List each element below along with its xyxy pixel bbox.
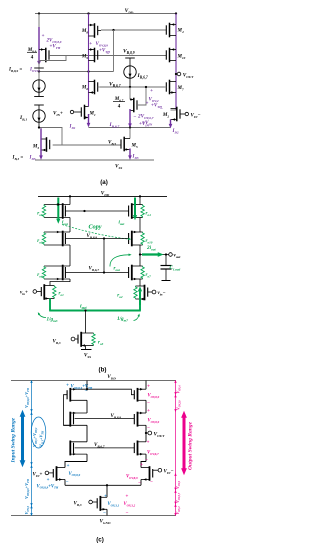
svg-text:IOVL2: IOVL2 [29, 68, 41, 73]
svg-text:ro1: ro1 [59, 292, 65, 297]
node M67 gate junction [145, 86, 147, 88]
node IB67-VB67 junction [129, 86, 131, 88]
transistor left with ro9 [44, 231, 70, 233]
transistor row3 left c [69, 441, 71, 456]
wire VB89 gate net b [65, 238, 128, 240]
wire M6 gate stub [98, 86, 100, 88]
node diode junction [112, 29, 114, 31]
current arrow into VSS purple [40, 129, 42, 158]
svg-text:M6: M6 [81, 86, 88, 91]
svg-text:VGND: VGND [100, 519, 111, 525]
wire VB67 net c [75, 447, 135, 449]
wire M7 gate stub [165, 86, 167, 88]
wire left branch bus purple [88, 14, 90, 107]
transistor M5 tail [124, 138, 130, 140]
current arrow ID1 purple [88, 114, 90, 125]
node IB1-M3 junction [38, 126, 40, 128]
svg-text:+: + [89, 42, 92, 47]
wire M89 diode connection [39, 56, 66, 61]
svg-text:ro9: ro9 [37, 239, 43, 244]
current arrow ID2 purple [170, 120, 172, 127]
svg-text:ro10: ro10 [146, 239, 153, 244]
transistor right with ro10 [132, 231, 140, 233]
current arrow IOVL2 purple [38, 27, 40, 63]
wire vout b [140, 254, 169, 256]
wire M3 diode connection [39, 128, 62, 146]
wire VSS rail [35, 159, 154, 161]
svg-text:VOV,8,9: VOV,8,9 [126, 475, 138, 480]
terminal bar IB67 top [125, 57, 135, 59]
node bias junction lower [103, 271, 105, 273]
node vout junction b [139, 253, 141, 255]
svg-text:VOV,8,9+VTH: VOV,8,9+VTH [24, 387, 30, 408]
node row1 gate junction [83, 210, 85, 212]
transistor M4 [170, 24, 177, 26]
svg-text:+VTH: +VTH [50, 45, 61, 50]
wire tail drain [129, 128, 131, 139]
svg-text:M9: M9 [81, 55, 88, 60]
svg-text:Output Swing Range: Output Swing Range [188, 421, 194, 470]
node VOUT junction [175, 73, 177, 75]
transistor row3 right c [137, 441, 139, 456]
node bias junction upper [103, 237, 105, 239]
svg-text:CLoad: CLoad [170, 265, 181, 271]
svg-text:2iout: 2iout [146, 245, 157, 251]
svg-text:M3: M3 [32, 145, 39, 150]
svg-text:VOV,8,9: VOV,8,9 [148, 419, 160, 424]
transistor row2 left c [69, 412, 71, 427]
node tail junction [129, 126, 131, 128]
svg-text:VOV,2: VOV,2 [175, 506, 181, 515]
svg-text:VOV,8,9+VTH: VOV,8,9+VTH [37, 484, 59, 489]
svg-text:+: + [147, 385, 150, 390]
svg-text:ro2: ro2 [117, 294, 123, 299]
svg-text:2VOV,8,9: 2VOV,8,9 [46, 39, 62, 44]
svg-text:vin+: vin+ [20, 291, 28, 296]
svg-text:IB,8,9 =: IB,8,9 = [8, 68, 22, 73]
node VDD-M4 junction [175, 12, 177, 14]
svg-text:VOV,3,2: VOV,3,2 [124, 502, 136, 507]
svg-text:−: − [103, 511, 106, 516]
svg-text:ro8: ro8 [37, 212, 43, 217]
svg-text:vin−: vin− [158, 291, 166, 296]
svg-text:+: + [125, 494, 128, 499]
current arrow iout right green [134, 198, 136, 216]
wire VB67 gate net b [65, 272, 128, 274]
transistor input right c [152, 469, 154, 478]
node cap junction b [165, 253, 167, 255]
svg-text:VB,6,7: VB,6,7 [94, 443, 105, 448]
transistor row1 left c [69, 388, 71, 402]
svg-text:IB,1: IB,1 [19, 115, 27, 122]
terminal vout circle b [169, 253, 173, 257]
wire VDD rail b [38, 195, 167, 197]
svg-text:VOV,8,9: VOV,8,9 [148, 394, 160, 399]
transistor right with ro4 [132, 204, 140, 206]
terminal VOUT c [146, 432, 148, 434]
svg-text:VIN+: VIN+ [33, 473, 43, 478]
wire M89 gate stub [49, 55, 52, 57]
node IB89 top junction [38, 70, 40, 72]
svg-text:−: − [147, 427, 150, 432]
svg-text:M7: M7 [177, 86, 184, 91]
transistor right with ro7 [132, 265, 140, 267]
svg-text:−: − [134, 114, 137, 120]
transistor input right ro2 [147, 288, 149, 297]
capacitor CLoad [165, 255, 167, 266]
wire left bus c [86, 381, 88, 390]
transistor M1 input [85, 106, 89, 108]
wire M2 drain jog [171, 109, 177, 111]
svg-text:M5: M5 [131, 144, 138, 149]
node VOUT junction c [145, 432, 147, 434]
transistor left with ro8 [44, 204, 70, 206]
svg-text:iout: iout [80, 304, 87, 311]
wire left bus segments b [69, 196, 71, 204]
current source IB1 [38, 105, 40, 110]
wire bias net to M9 drain and IB89 [39, 71, 114, 73]
node VDD-M8 junction [87, 12, 89, 14]
svg-text:VOV,8,9+VTH: VOV,8,9+VTH [24, 478, 30, 499]
svg-text:VOV,2: VOV,2 [149, 98, 159, 103]
wire M67 gate to VB67 net [137, 87, 146, 105]
wire gate bias vertical b [103, 239, 105, 273]
current arrow 2iout up green [139, 291, 141, 305]
wire right branch bus purple [175, 14, 177, 111]
wire M67 drain up [129, 87, 131, 100]
svg-text:(a): (a) [100, 179, 108, 186]
node iout tap left [57, 203, 59, 205]
svg-text:4: 4 [31, 55, 34, 60]
node VDD-M89 junction [38, 12, 40, 14]
wire VDD rail c [11, 380, 176, 382]
terminal VIN- circle [185, 112, 188, 115]
current arrow iout left green [57, 198, 59, 219]
wire tail source b [85, 346, 87, 350]
transistor left with ro6 [44, 265, 70, 267]
wire right bus segments b [139, 196, 141, 204]
wire M89 source to IB89 [38, 61, 40, 80]
svg-text:VB,6,7: VB,6,7 [89, 267, 100, 272]
svg-text:VB,3+VTH: VB,3+VTH [39, 430, 45, 447]
wire M3 drain [40, 128, 42, 140]
svg-text:M8: M8 [81, 29, 88, 34]
terminal VIN+ circle [70, 110, 73, 113]
svg-text:VB,5: VB,5 [108, 141, 116, 146]
svg-text:IB,6,7: IB,6,7 [137, 73, 148, 80]
wire tail connections c [106, 485, 108, 497]
wire VDD rail [35, 13, 176, 15]
node M9 drain junction [87, 70, 89, 72]
wire VOUT stub [176, 73, 177, 75]
wire VB89 net c [75, 417, 135, 419]
svg-text:−: − [147, 402, 150, 407]
node row1 drain junction c [86, 388, 88, 390]
wire right input bus b [139, 279, 141, 286]
svg-text:ro6: ro6 [37, 273, 43, 278]
svg-text:VOV,5,7: VOV,5,7 [175, 492, 181, 503]
ellipse annotation blue [31, 417, 46, 448]
transistor M8 [89, 24, 95, 26]
node tail junction b [84, 309, 86, 311]
wire source-coupled green path [49, 299, 51, 311]
svg-text:+: + [67, 464, 70, 469]
wire input left jog c [65, 462, 87, 468]
svg-text:ro4: ro4 [146, 212, 152, 217]
svg-text:VIN−: VIN− [164, 470, 174, 475]
svg-text:VOUT: VOUT [154, 432, 166, 439]
current arrow 2iout green [142, 253, 158, 255]
node rail-left bus [69, 195, 71, 197]
node tail junction c [106, 484, 108, 486]
svg-text:M2: M2 [162, 113, 169, 118]
svg-text:ID5: ID5 [132, 155, 139, 160]
svg-text:ro3: ro3 [98, 341, 104, 346]
svg-text:VOV,8,9: VOV,8,9 [69, 472, 81, 477]
svg-text:−: − [85, 390, 88, 395]
wire VB5 gate net [53, 144, 121, 146]
transistor M7 cascode [170, 81, 177, 83]
svg-text:IB,3 =: IB,3 = [12, 156, 24, 161]
svg-text:+: + [42, 34, 45, 39]
svg-text:+: + [140, 463, 143, 468]
svg-text:+: + [147, 441, 150, 446]
wire row1 gate net b [65, 210, 128, 212]
svg-text:VOV,3,1: VOV,3,1 [108, 502, 120, 507]
wire left input jog b [50, 282, 70, 286]
svg-text:VSS: VSS [115, 164, 122, 170]
svg-text:−: − [145, 459, 148, 464]
wire gate net M8-M4 [101, 29, 166, 31]
svg-text:VOV,4: VOV,4 [176, 385, 182, 394]
svg-text:(c): (c) [96, 537, 104, 544]
svg-text:VOV,6,7: VOV,6,7 [147, 451, 159, 456]
transistor row1 right c [137, 388, 139, 402]
svg-text:IB,6,7: IB,6,7 [109, 122, 120, 129]
svg-text:−: − [160, 107, 163, 113]
svg-text:ro7: ro7 [146, 273, 152, 278]
transistor M3 diode [41, 138, 47, 140]
svg-text:VOV,10: VOV,10 [176, 400, 182, 410]
svg-text:2VOV,6,7: 2VOV,6,7 [137, 114, 154, 120]
transistor M2 input [171, 108, 177, 110]
transistor M6 cascode [89, 81, 95, 83]
svg-text:VB,3: VB,3 [74, 502, 82, 507]
svg-text:VB,3: VB,3 [53, 340, 61, 345]
svg-text:Input Swing Range: Input Swing Range [11, 417, 17, 463]
svg-text:VOV,2: VOV,2 [175, 480, 181, 489]
wire diode drop [113, 30, 115, 72]
svg-text:1/gm7: 1/gm7 [117, 316, 128, 322]
wire VB67 gate net [100, 86, 165, 88]
current source IB67 [129, 58, 131, 66]
svg-text:+: + [147, 409, 150, 414]
svg-text:VOUT: VOUT [183, 73, 194, 79]
svg-text:−: − [66, 480, 69, 485]
svg-text:VDD: VDD [101, 190, 110, 196]
transistor M9 [89, 49, 95, 51]
svg-text:VDD: VDD [107, 374, 116, 380]
terminal bar IB89 top [34, 67, 44, 69]
svg-text:+: + [104, 494, 107, 499]
svg-text:+: + [47, 478, 50, 483]
transistor M67 quarter-size [130, 99, 134, 101]
svg-text:1/gm3: 1/gm3 [47, 317, 58, 323]
svg-text:M4: M4 [177, 29, 184, 34]
current arrow M67 source purple [129, 109, 131, 126]
ground VSS b [81, 349, 92, 351]
svg-text:rout: rout [114, 267, 120, 272]
wire right bus c [145, 381, 147, 390]
swing reference line input blue [31, 381, 33, 516]
wire VGND rail c [11, 515, 176, 517]
wire row1 gate chain c [64, 395, 71, 426]
transistor row2 right c [137, 412, 139, 427]
svg-text:VSS: VSS [84, 353, 91, 359]
svg-text:VB,8,9: VB,8,9 [123, 49, 135, 56]
svg-text:M1: M1 [89, 112, 96, 117]
input swing range arrow blue [21, 417, 24, 461]
transistor M10 [170, 49, 177, 51]
svg-text:(b): (b) [99, 367, 107, 374]
svg-text:ID5: ID5 [29, 156, 36, 161]
svg-text:VOV,3+VOV,1: VOV,3+VOV,1 [32, 427, 38, 447]
wire source net c [64, 480, 66, 486]
svg-text:Copy: Copy [88, 224, 101, 231]
svg-text:+: + [66, 384, 69, 389]
wire w1 row1 drain to right gate [87, 389, 134, 395]
copy dashed arc green [62, 225, 129, 240]
svg-text:vout: vout [174, 253, 182, 259]
svg-text:−: − [107, 52, 110, 58]
svg-text:VB,8,9: VB,8,9 [111, 414, 122, 419]
svg-text:M10: M10 [177, 55, 186, 60]
current arrow ID5 purple [129, 149, 131, 158]
transistor M89 quarter-size diode [39, 49, 46, 51]
svg-text:+: + [150, 89, 153, 94]
node rail-right bus [139, 195, 141, 197]
terminal bar IB1 top [34, 104, 44, 106]
svg-text:VOV,8,9: VOV,8,9 [96, 42, 109, 47]
output swing range arrow pink [183, 418, 186, 469]
svg-text:VIN−: VIN− [191, 114, 201, 119]
svg-text:VIN+: VIN+ [53, 112, 63, 117]
wire bias column upper [38, 14, 40, 50]
svg-text:−: − [138, 482, 141, 487]
svg-text:VOV,3: VOV,3 [24, 505, 30, 514]
svg-text:−: − [150, 481, 153, 486]
swing reference line output pink [175, 381, 177, 516]
svg-text:ID1: ID1 [69, 125, 76, 130]
terminal VOUT circle [177, 72, 181, 76]
svg-text:−: − [126, 511, 129, 516]
current source IB89 [38, 79, 40, 81]
wire common-source net [89, 127, 171, 129]
terminal bar IB89 bottom [34, 96, 44, 98]
svg-text:+VIN: +VIN [139, 122, 149, 127]
svg-text:iout: iout [119, 221, 125, 226]
wire input right jog c [141, 462, 146, 468]
wire VB89 gate net [49, 55, 167, 57]
svg-text:VB,6,7: VB,6,7 [109, 82, 121, 89]
svg-text:ID2: ID2 [172, 129, 179, 134]
svg-text:4: 4 [118, 105, 121, 110]
svg-text:VOV,8,9+VTH: VOV,8,9+VTH [71, 385, 93, 390]
